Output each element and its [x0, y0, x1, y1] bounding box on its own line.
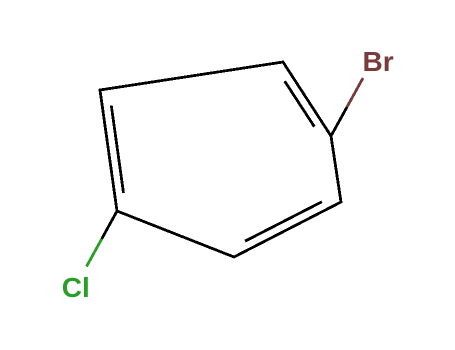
svg-text:Cl: Cl: [62, 272, 90, 303]
svg-text:Br: Br: [363, 46, 394, 77]
